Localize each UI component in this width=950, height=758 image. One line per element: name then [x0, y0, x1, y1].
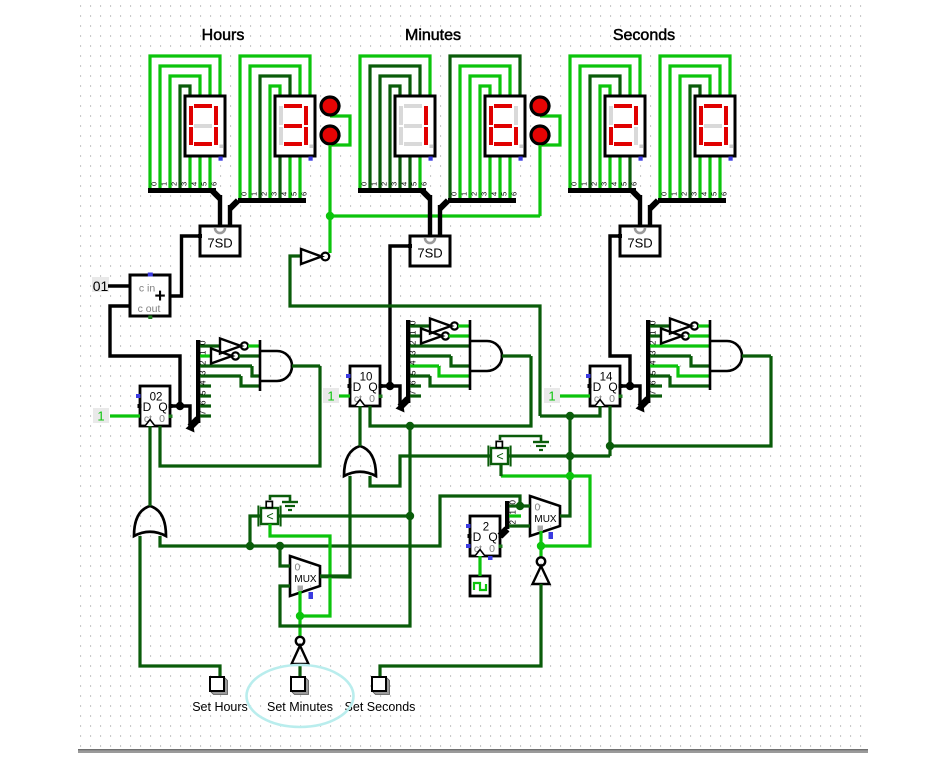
wire loops feeding display DIG1 (hours tens)	[150, 56, 220, 190]
bus from DIG6 splitter to 7SD U3	[650, 201, 658, 209]
svg-text:2: 2	[380, 182, 389, 186]
svg-text:1: 1	[509, 510, 518, 515]
wire R3 Q to splitter	[620, 386, 640, 407]
svg-text:4: 4	[199, 380, 208, 385]
svg-text:7: 7	[649, 390, 658, 395]
junction clock net at M1 branch	[276, 542, 284, 550]
wire branch to M1 input0	[280, 546, 290, 566]
svg-text:4: 4	[190, 182, 199, 186]
subcircuit U2 minutes 7SD (7SD seven-segment driver)	[410, 236, 450, 266]
inverter G8 (Set Seconds)	[537, 557, 545, 565]
svg-text:D: D	[143, 400, 152, 414]
svg-text:5: 5	[620, 182, 629, 186]
7-segment display DIG6 (seconds ones) showing 0	[695, 96, 735, 156]
svg-text:3: 3	[180, 182, 189, 186]
wire loops feeding display DIG4 (minutes ones)	[450, 56, 520, 200]
svg-text:0: 0	[535, 502, 541, 514]
svg-text:0: 0	[295, 562, 301, 574]
constant 1 (seconds clock enable)	[544, 388, 560, 403]
LED colon1 bottom	[321, 126, 339, 144]
clock CLK1	[470, 576, 490, 596]
svg-text:2: 2	[470, 192, 479, 196]
svg-text:1: 1	[327, 389, 334, 404]
wire hours bit2 jog	[252, 366, 260, 376]
wire G5 out	[449, 334, 471, 337]
wire M1 output to O2	[320, 574, 350, 577]
wire Set Seconds button to G8	[380, 584, 541, 677]
inverter G2 hours bit0	[220, 339, 241, 354]
svg-text:0: 0	[450, 192, 459, 196]
svg-text:4: 4	[400, 182, 409, 186]
wire branch to E1 input	[250, 516, 261, 546]
wire E1 output to minutes feedback	[279, 514, 410, 517]
svg-text:0: 0	[660, 192, 669, 196]
wire O2 left input from M1	[320, 476, 350, 577]
svg-text:2: 2	[680, 192, 689, 196]
svg-text:2: 2	[590, 182, 599, 186]
svg-text:4: 4	[280, 192, 289, 196]
AND gate A3 seconds rollover detect	[709, 320, 712, 390]
svg-text:4: 4	[409, 360, 418, 365]
junction clock net at E1 branch	[246, 542, 254, 550]
svg-text:Q: Q	[488, 530, 497, 544]
svg-text:7SD: 7SD	[417, 246, 442, 261]
wire S4 bit0	[509, 504, 520, 507]
svg-text:D: D	[353, 380, 362, 394]
wire loops feeding display DIG2 (hours ones)	[240, 56, 310, 200]
svg-text:3: 3	[649, 350, 658, 355]
svg-text:3: 3	[690, 192, 699, 196]
push button B1	[210, 677, 228, 695]
svg-text:5: 5	[649, 370, 658, 375]
svg-text:Q: Q	[158, 400, 167, 414]
adder U4 (+1 for hours display)	[130, 275, 170, 316]
wire G3 out	[239, 354, 261, 357]
svg-text:0: 0	[489, 543, 495, 555]
inverter G7 seconds bit1	[661, 329, 682, 344]
wire const to R2 clock	[339, 394, 350, 397]
splitter fan-out bus bar under display DIG5 (seconds tens)	[568, 188, 636, 193]
splitter fan-out bus bar under display DIG4 (minutes ones)	[448, 198, 516, 203]
wire const to R1 clock	[110, 414, 140, 417]
svg-text:1: 1	[97, 409, 104, 424]
wire hours feedback loop	[160, 366, 320, 466]
svg-text:6: 6	[510, 192, 519, 196]
svg-text:6: 6	[649, 380, 658, 385]
svg-text:6: 6	[300, 192, 309, 196]
wire Set Minutes button to G9	[298, 664, 301, 677]
svg-text:6: 6	[420, 182, 429, 186]
multiplexer M2 seconds clock mux	[530, 496, 560, 536]
subcircuit U1 hours 7SD (7SD seven-segment driver)	[200, 226, 240, 256]
svg-text:4: 4	[490, 192, 499, 196]
inverter G9 (Set Minutes)	[296, 637, 304, 645]
wire loop for colon LEDs colon2	[540, 116, 560, 145]
constant 1 (minutes clock enable)	[323, 388, 339, 403]
splitter S1 hours bits	[190, 419, 198, 427]
wire M2 select loop to E2	[501, 476, 590, 546]
svg-text:5: 5	[710, 192, 719, 196]
wire seconds feedback loop	[610, 356, 771, 446]
wire minutes bit4 jog	[439, 366, 470, 376]
svg-text:0: 0	[369, 393, 375, 405]
bus from DIG2 splitter to 7SD U1	[230, 201, 238, 209]
wire M1 select loop to E1	[270, 524, 330, 616]
wire clock distribution net	[160, 496, 530, 546]
7-segment display DIG1 (hours tens) showing 0	[185, 96, 225, 156]
wire A1 output	[292, 364, 320, 367]
ground GND2	[533, 441, 549, 443]
svg-text:0: 0	[240, 192, 249, 196]
register R1 hours counter (value 02)	[140, 386, 170, 426]
wire const to R3 clock	[560, 394, 590, 397]
svg-text:7: 7	[199, 410, 208, 415]
7-segment display DIG5 (seconds tens) showing 2	[605, 96, 645, 156]
svg-text:2: 2	[649, 340, 658, 345]
svg-text:0: 0	[570, 182, 579, 186]
junction E1 out	[406, 512, 414, 520]
AND gate A1 hours rollover detect	[259, 340, 262, 391]
svg-text:1: 1	[160, 182, 169, 186]
register R2 minutes counter (value 10)	[350, 366, 380, 406]
LED colon2 top	[531, 97, 549, 115]
inverter G5 minutes bit1	[421, 329, 442, 344]
junction seconds Q	[626, 382, 634, 390]
junction M1 select	[296, 612, 304, 620]
svg-text:2: 2	[509, 520, 518, 525]
svg-text:2: 2	[260, 192, 269, 196]
svg-text:<: <	[266, 510, 273, 524]
wire CLK1 to R4 clock	[478, 556, 481, 576]
svg-text:3: 3	[270, 192, 279, 196]
svg-text:1: 1	[460, 192, 469, 196]
splitter fan-out bus bar under display DIG1 (hours tens)	[148, 188, 216, 193]
wire G7 out	[689, 334, 711, 337]
wire minutes carry to M1 input1	[280, 426, 410, 626]
splitter fan-out bus bar under display DIG6 (seconds ones)	[658, 198, 726, 203]
svg-text:Seconds: Seconds	[613, 27, 675, 44]
svg-text:3: 3	[199, 370, 208, 375]
svg-text:0: 0	[360, 182, 369, 186]
OR gate O2 minutes clock select	[344, 446, 376, 476]
junction M2 input0	[516, 502, 524, 510]
svg-text:MUX: MUX	[294, 574, 317, 585]
svg-text:Set Hours: Set Hours	[192, 700, 248, 714]
bus hours count to adder input	[110, 306, 180, 406]
junction M2 out	[566, 412, 574, 420]
7-segment display DIG3 (minutes tens) showing 1	[395, 96, 435, 156]
push button B3	[372, 677, 390, 695]
svg-text:c in: c in	[139, 283, 156, 295]
svg-text:1: 1	[250, 192, 259, 196]
7-segment display DIG4 (minutes ones) showing 6	[485, 96, 525, 156]
svg-text:5: 5	[409, 370, 418, 375]
wire minutes feedback loop	[370, 356, 531, 426]
junction colon1	[326, 212, 334, 220]
register R4 set-mode register (value 2)	[470, 516, 500, 556]
wire colon tap	[290, 256, 540, 416]
wire G6 out	[698, 324, 710, 327]
wire loops feeding display DIG3 (minutes tens)	[360, 56, 430, 190]
splitter S3 seconds bits	[640, 399, 648, 407]
wire E1 notch to ground	[270, 496, 290, 502]
wire colon1 drop to NOT gate G1	[328, 145, 331, 253]
svg-text:3: 3	[480, 192, 489, 196]
svg-text:Q: Q	[608, 380, 617, 394]
junction E2 net	[566, 452, 574, 460]
wire O2 output to R2 clock	[358, 406, 361, 446]
svg-text:5: 5	[290, 192, 299, 196]
ground GND1	[282, 501, 298, 503]
svg-text:6: 6	[630, 182, 639, 186]
AND gate A2 minutes rollover detect	[469, 320, 472, 390]
canvas bottom border / scrollbar strip	[78, 749, 868, 753]
LED colon2 bottom	[531, 126, 549, 144]
svg-text:<: <	[496, 450, 503, 464]
junction E2 bottom	[566, 472, 574, 480]
constant 1 (hours clock enable)	[93, 408, 109, 423]
constant 01 (hours offset)	[92, 277, 109, 292]
wire colon blink distribution	[330, 214, 540, 217]
svg-text:0: 0	[159, 413, 165, 425]
bus from DIG4 splitter to 7SD U2	[440, 201, 448, 209]
wire G4 out	[458, 324, 470, 327]
bus from DIG1 splitter to 7SD U1	[212, 191, 220, 199]
7-segment display DIG2 (hours ones) showing 3	[275, 96, 315, 156]
inverter G4 minutes bit0	[430, 319, 451, 334]
svg-text:6: 6	[409, 380, 418, 385]
wire constant to adder	[108, 284, 130, 287]
edge detector E2 (minutes)	[491, 448, 508, 464]
wire E2 notch to ground	[500, 436, 541, 442]
junction select net	[537, 542, 545, 550]
multiplexer M1 hours set mux	[290, 556, 320, 596]
junction minutes Q	[386, 382, 394, 390]
svg-text:1: 1	[670, 192, 679, 196]
wire M2 output riser	[560, 416, 570, 516]
OR gate O1 hours clock select	[134, 506, 166, 536]
svg-text:5: 5	[500, 192, 509, 196]
wire R3 lower pin to feedback	[608, 406, 611, 456]
wire R2 Q to splitter	[380, 386, 400, 407]
svg-text:3: 3	[600, 182, 609, 186]
wire seconds bit3 jog	[691, 356, 710, 366]
inverter G1 (colon blink)	[301, 249, 322, 264]
svg-text:6: 6	[210, 182, 219, 186]
wire G2 out	[248, 344, 260, 347]
svg-text:6: 6	[720, 192, 729, 196]
svg-text:0: 0	[609, 393, 615, 405]
svg-text:+: +	[154, 286, 165, 307]
svg-text:3: 3	[409, 350, 418, 355]
wire loop for colon LEDs colon1	[330, 116, 350, 145]
bus minutes 7SD to register Q	[390, 246, 410, 386]
svg-text:MUX: MUX	[534, 514, 557, 525]
svg-text:7SD: 7SD	[627, 236, 652, 251]
svg-text:2: 2	[170, 182, 179, 186]
svg-text:1: 1	[370, 182, 379, 186]
wire minutes bit5 jog	[430, 376, 470, 386]
wire M1 select net	[298, 591, 301, 637]
svg-text:3: 3	[390, 182, 399, 186]
svg-text:D: D	[593, 380, 602, 394]
wire A3 output	[742, 354, 771, 357]
wire colon2 drop	[538, 145, 541, 216]
svg-text:4: 4	[610, 182, 619, 186]
svg-text:2: 2	[199, 360, 208, 365]
svg-text:Set Seconds: Set Seconds	[345, 700, 416, 714]
svg-text:1: 1	[199, 350, 208, 355]
svg-text:Hours: Hours	[202, 27, 245, 44]
wire A2 output	[502, 354, 531, 357]
svg-text:0: 0	[409, 320, 418, 325]
wire M2 select net	[539, 531, 542, 557]
svg-text:1: 1	[409, 330, 418, 335]
edge detector E1 (hours)	[261, 508, 278, 524]
wire E2 bottom stub	[499, 464, 502, 476]
highlight ellipse around Set Minutes	[247, 665, 354, 727]
svg-text:5: 5	[410, 182, 419, 186]
wire E2 out to seconds net	[509, 454, 610, 457]
svg-text:1: 1	[580, 182, 589, 186]
register R3 seconds counter (value 14)	[590, 366, 620, 406]
svg-text:7SD: 7SD	[207, 236, 232, 251]
wire S4 bit1 stub	[509, 514, 521, 517]
wire seconds bit5 jog	[670, 376, 710, 386]
svg-text:2: 2	[409, 340, 418, 345]
svg-text:D: D	[473, 530, 482, 544]
splitter S4 for R4	[500, 529, 507, 536]
bus from DIG3 splitter to 7SD U2	[422, 191, 430, 199]
subcircuit U3 seconds 7SD (7SD seven-segment driver)	[620, 226, 660, 256]
junction minutes feedback	[406, 422, 414, 430]
svg-text:01: 01	[93, 278, 109, 294]
svg-text:Minutes: Minutes	[405, 27, 461, 44]
wire O2 right input	[370, 456, 492, 486]
wire loops feeding display DIG6 (seconds ones)	[660, 56, 730, 200]
svg-text:0: 0	[150, 182, 159, 186]
wire R1 Q to splitter	[170, 406, 190, 427]
push button B2	[291, 677, 309, 695]
splitter fan-out bus bar under display DIG3 (minutes tens)	[358, 188, 426, 193]
svg-text:0: 0	[649, 320, 658, 325]
svg-text:5: 5	[200, 182, 209, 186]
inverter G3 hours bit1	[211, 349, 232, 364]
svg-text:1: 1	[548, 389, 555, 404]
svg-text:4: 4	[700, 192, 709, 196]
svg-text:0: 0	[509, 500, 518, 505]
svg-text:Q: Q	[368, 380, 377, 394]
wire S4 bit2 to M2	[509, 524, 530, 527]
splitter S2 minutes bits	[400, 399, 408, 407]
wire minutes bit3 jog	[451, 356, 470, 366]
LED colon1 top	[321, 97, 339, 115]
junction seconds feedback	[606, 442, 614, 450]
bus adder to hours 7SD	[170, 236, 200, 296]
bus from DIG5 splitter to 7SD U3	[632, 191, 640, 199]
svg-text:Set Minutes: Set Minutes	[267, 700, 333, 714]
svg-text:5: 5	[199, 390, 208, 395]
svg-text:1: 1	[649, 330, 658, 335]
svg-text:4: 4	[649, 360, 658, 365]
wire loops feeding display DIG5 (seconds tens)	[570, 56, 640, 190]
svg-text:6: 6	[199, 400, 208, 405]
inverter G6 seconds bit0	[670, 319, 691, 334]
wire hours bit3 jog	[241, 376, 260, 386]
wire seconds bit4 jog	[678, 366, 710, 376]
bus seconds 7SD to register Q	[610, 236, 630, 386]
splitter fan-out bus bar under display DIG2 (hours ones)	[238, 198, 306, 203]
wire O1 output to R1 clock	[148, 426, 151, 506]
junction hours Q	[176, 402, 184, 410]
svg-text:7: 7	[409, 390, 418, 395]
wire Set Hours button to O1	[140, 536, 220, 677]
svg-text:0: 0	[199, 340, 208, 345]
wire seconds clock row	[540, 406, 600, 416]
